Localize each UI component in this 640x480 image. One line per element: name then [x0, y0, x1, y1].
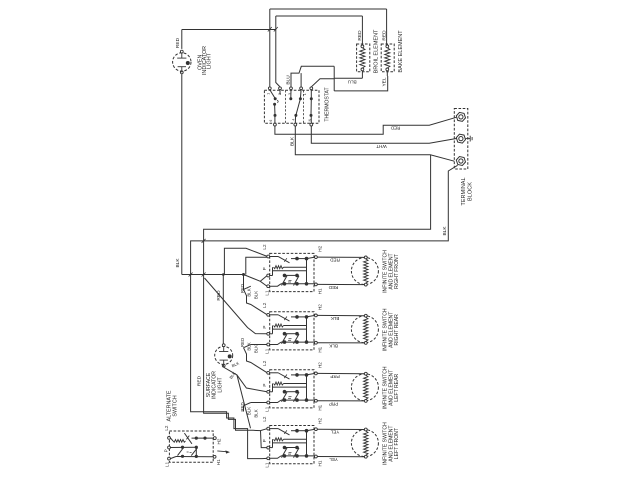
- svg-text:YEL: YEL: [329, 457, 338, 462]
- svg-text:RED: RED: [382, 30, 388, 41]
- svg-text:BLU: BLU: [348, 80, 357, 85]
- svg-text:BLK: BLK: [290, 136, 296, 146]
- svg-text:BLK: BLK: [253, 345, 258, 353]
- svg-text:L1: L1: [164, 461, 169, 467]
- svg-text:4: 4: [292, 118, 296, 120]
- svg-text:WHT: WHT: [376, 144, 387, 149]
- svg-text:LIGHT: LIGHT: [206, 52, 212, 69]
- svg-text:H1: H1: [318, 346, 323, 352]
- svg-text:BLK: BLK: [442, 226, 448, 236]
- svg-text:H1: H1: [318, 460, 323, 466]
- svg-text:LEFT FRONT: LEFT FRONT: [394, 428, 400, 459]
- svg-text:RED: RED: [357, 30, 363, 41]
- svg-text:BLK: BLK: [253, 291, 258, 299]
- svg-text:RIGHT REAR: RIGHT REAR: [394, 314, 400, 346]
- svg-text:L2: L2: [262, 416, 267, 422]
- svg-text:1: 1: [303, 93, 307, 95]
- svg-text:H1: H1: [318, 288, 323, 294]
- svg-text:P: P: [262, 267, 267, 270]
- svg-text:BLK: BLK: [247, 407, 252, 415]
- svg-text:YEL: YEL: [381, 77, 387, 86]
- svg-text:BLK: BLK: [247, 288, 252, 296]
- svg-text:RIGHT FRONT: RIGHT FRONT: [394, 254, 400, 289]
- svg-text:BLOCK: BLOCK: [467, 182, 473, 201]
- svg-text:BLK: BLK: [328, 343, 338, 348]
- svg-text:RED: RED: [240, 402, 245, 411]
- svg-text:BROIL ELEMENT: BROIL ELEMENT: [373, 29, 379, 73]
- svg-text:LEFT REAR: LEFT REAR: [394, 374, 400, 402]
- svg-text:L1: L1: [264, 348, 269, 354]
- svg-text:L1: L1: [264, 406, 269, 412]
- svg-text:P: P: [262, 326, 267, 329]
- svg-text:THERMOSTAT: THERMOSTAT: [325, 87, 331, 121]
- svg-text:L2: L2: [262, 244, 267, 250]
- svg-text:SWITCH: SWITCH: [173, 395, 179, 416]
- svg-text:L2: L2: [262, 360, 267, 366]
- svg-text:RED: RED: [390, 125, 400, 130]
- svg-text:L1: L1: [264, 462, 269, 468]
- svg-text:L2: L2: [164, 425, 169, 431]
- svg-text:YEL: YEL: [330, 430, 339, 435]
- svg-text:P: P: [262, 384, 267, 387]
- svg-text:BLU: BLU: [286, 75, 292, 85]
- svg-text:H2: H2: [318, 362, 323, 368]
- svg-text:BLK: BLK: [330, 316, 340, 321]
- svg-text:6: 6: [269, 119, 273, 121]
- svg-text:P: P: [164, 449, 169, 452]
- svg-text:RED: RED: [328, 285, 338, 290]
- svg-text:BLK: BLK: [253, 409, 258, 417]
- svg-text:H2: H2: [318, 418, 323, 424]
- svg-text:PRP: PRP: [329, 401, 338, 406]
- svg-text:2: 2: [278, 93, 282, 95]
- svg-text:ALTERNATE: ALTERNATE: [166, 390, 172, 421]
- svg-text:BLK: BLK: [247, 342, 252, 350]
- svg-text:RED: RED: [240, 284, 245, 293]
- svg-text:BAKE ELEMENT: BAKE ELEMENT: [398, 30, 404, 73]
- svg-text:H1: H1: [216, 459, 221, 465]
- svg-text:RED: RED: [329, 258, 339, 263]
- svg-text:H2: H2: [318, 304, 323, 310]
- svg-text:P: P: [262, 439, 267, 442]
- svg-text:LIGHT: LIGHT: [217, 377, 223, 393]
- svg-text:RED: RED: [175, 37, 181, 48]
- svg-text:RED: RED: [240, 338, 245, 347]
- svg-text:TERMINAL: TERMINAL: [461, 177, 467, 205]
- svg-text:L2: L2: [262, 302, 267, 308]
- svg-text:L1: L1: [264, 290, 269, 296]
- svg-text:H2: H2: [216, 438, 221, 444]
- svg-text:PRP: PRP: [330, 374, 339, 379]
- svg-text:BLK: BLK: [175, 258, 181, 268]
- svg-text:1: 1: [267, 93, 271, 95]
- svg-text:H2: H2: [318, 245, 323, 251]
- svg-text:RED: RED: [196, 375, 202, 386]
- svg-text:H1: H1: [318, 404, 323, 410]
- svg-text:3: 3: [288, 93, 292, 95]
